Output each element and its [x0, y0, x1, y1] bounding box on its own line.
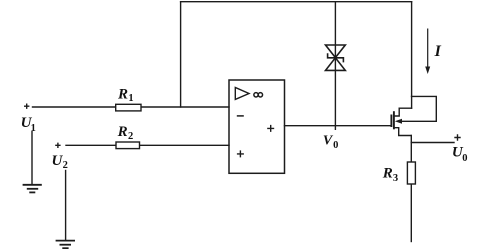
svg-text:R: R: [117, 86, 128, 102]
svg-text:1: 1: [31, 123, 36, 134]
current arrow I: [427, 29, 429, 68]
svg-text:2: 2: [128, 131, 133, 142]
wire right rail vertical (drain): [411, 2, 413, 109]
wire R2 to op-amp: [140, 144, 230, 146]
wire drain jog: [395, 108, 412, 116]
wire U1 negative terminal to ground: [31, 132, 33, 185]
wire bulk loop: [399, 96, 437, 121]
wire U1 to R1: [33, 106, 117, 108]
wire U2 to R2: [66, 144, 116, 146]
op-amp minus input sign: [237, 115, 244, 117]
svg-text:3: 3: [393, 173, 398, 184]
op-amp plus input sign: [237, 150, 244, 157]
bidirectional zener diode: [326, 45, 346, 70]
ground for U2: [56, 241, 75, 249]
transistor Q1 channel bar: [393, 111, 395, 129]
wire source jog: [395, 128, 412, 136]
svg-text:R: R: [382, 165, 393, 181]
ground for U1: [23, 185, 42, 193]
resistor R3: [407, 162, 415, 184]
svg-text:0: 0: [462, 153, 467, 164]
output U0 plus sign: [454, 134, 460, 140]
op-amp infinity symbol: [254, 93, 258, 97]
wire U0 branch: [411, 142, 454, 144]
op-amp output plus sign: [267, 125, 274, 132]
svg-text:I: I: [434, 43, 442, 60]
wire R3 to bottom: [410, 184, 412, 242]
svg-text:R: R: [117, 124, 128, 140]
resistor R2: [116, 142, 140, 149]
wire diode branch vertical: [334, 2, 336, 130]
source U1 plus sign: [24, 104, 29, 109]
wire top rail: [181, 1, 412, 3]
transistor Q1 gate bar: [390, 115, 392, 128]
wire op-amp output to gate: [285, 125, 392, 127]
op-amp U1 box: [229, 80, 285, 173]
resistor R1: [116, 104, 141, 111]
wire U2 negative terminal to ground: [65, 171, 67, 241]
op-amp triangle symbol: [235, 88, 249, 100]
source U2 plus sign: [55, 143, 60, 148]
wire source to R3: [410, 136, 412, 163]
svg-text:1: 1: [128, 93, 133, 104]
transistor Q1 bulk arrow: [395, 119, 402, 124]
svg-text:2: 2: [63, 160, 68, 171]
svg-text:0: 0: [333, 140, 338, 151]
wire feedback vertical: [180, 2, 182, 107]
wire R1 to op-amp: [140, 106, 229, 108]
